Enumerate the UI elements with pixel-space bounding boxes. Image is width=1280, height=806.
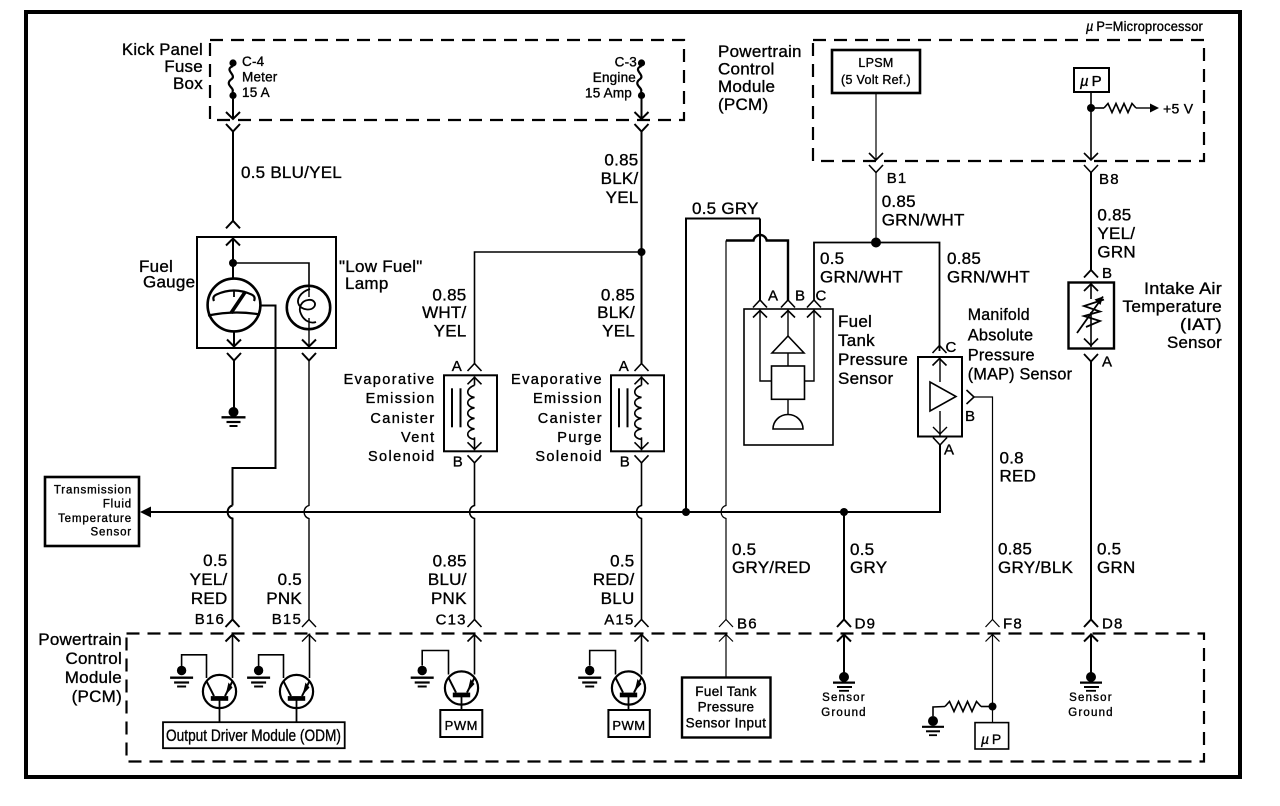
- node junction gauge/lamp: [229, 259, 237, 267]
- Fuel Gauge box: [197, 237, 336, 348]
- resistor to +5V: [1091, 104, 1159, 113]
- svg-text:PWM: PWM: [612, 718, 645, 733]
- label 0.85 GRN/WHT: [882, 192, 965, 230]
- connector B15 at PCM boundary: [302, 620, 316, 642]
- wire Q3 collector to PWM: [461, 697, 463, 710]
- ground (Q1 base): [170, 666, 193, 687]
- connector at fuse box boundary (C-4 output): [226, 112, 240, 132]
- label C-3 Engine 15 Amp: [585, 55, 637, 101]
- label 0.5 GRY (D9): [850, 540, 887, 577]
- Fuel Tank Pressure Sensor Input box: [682, 678, 771, 738]
- svg-text:0.5: 0.5: [820, 249, 844, 268]
- wire 0.5 GRY (bus to PCM D9): [843, 512, 845, 620]
- svg-text:YEL/: YEL/: [190, 570, 228, 589]
- svg-text:Box: Box: [173, 74, 203, 93]
- svg-text:15 Amp: 15 Amp: [585, 86, 632, 101]
- wire F8 stem to uP: [992, 634, 994, 723]
- Evaporative Emission Canister Purge Solenoid: [611, 375, 664, 451]
- svg-text:RED: RED: [191, 589, 228, 608]
- label Powertrain Control Module (PCM) top: [718, 42, 802, 114]
- Intake Air Temperature (IAT) Sensor box: [1069, 283, 1115, 349]
- microprocessor box uP (top right): [1074, 68, 1109, 92]
- svg-text:Vent: Vent: [401, 430, 436, 446]
- wire uP down: [1090, 92, 1092, 160]
- svg-text:C: C: [946, 339, 958, 356]
- svg-text:Gauge: Gauge: [143, 273, 195, 292]
- label 0.85 BLU/PNK C13: [428, 552, 467, 629]
- connector FTP pin B: [781, 300, 795, 318]
- MAP internals (amplifier): [930, 357, 956, 436]
- wire MAP A to bus: [844, 445, 940, 512]
- wire junction to low fuel lamp: [233, 263, 309, 286]
- wire 0.85 YEL/GRN (B8 to IAT): [1090, 173, 1092, 271]
- svg-text:Sensor: Sensor: [1069, 692, 1113, 704]
- svg-text:B6: B6: [737, 616, 758, 633]
- svg-text:B: B: [795, 288, 806, 305]
- svg-text:Emission: Emission: [533, 391, 603, 407]
- svg-text:Module: Module: [65, 668, 122, 687]
- svg-text:YEL: YEL: [602, 322, 635, 341]
- svg-text:Module: Module: [718, 77, 775, 96]
- wire to ground: [233, 361, 235, 409]
- label 0.85 GRY/BLK: [998, 540, 1074, 577]
- wire 0.85 BLU/PNK (vent to PCM C13) with hop over bus: [470, 463, 475, 620]
- svg-text:GRN/WHT: GRN/WHT: [882, 211, 965, 230]
- svg-text:B16: B16: [195, 611, 225, 628]
- svg-text:15 A: 15 A: [242, 85, 270, 100]
- svg-text:YEL: YEL: [606, 188, 639, 207]
- Manifold Absolute Pressure (MAP) Sensor box: [918, 357, 962, 437]
- label 0.5 GRY/RED: [732, 540, 811, 577]
- label Fuel Tank Pressure Sensor: [838, 312, 908, 388]
- wire lamp bottom: [308, 329, 310, 347]
- svg-text:GRN: GRN: [1097, 243, 1136, 262]
- wire 0.5 GRN (IAT to PCM D8): [1090, 362, 1092, 620]
- PWM box (purge driver): [608, 710, 649, 737]
- svg-text:Tank: Tank: [838, 331, 875, 350]
- Powertrain Control Module bottom (dashed enclosure): [127, 634, 1205, 762]
- svg-text:Meter: Meter: [242, 70, 278, 85]
- svg-text:A15: A15: [604, 612, 634, 629]
- wire A15 stem to transistor Q4: [641, 634, 643, 675]
- connector MAP pin C: [933, 346, 947, 366]
- svg-text:B15: B15: [272, 611, 302, 628]
- sensor ground (D9): [821, 672, 867, 719]
- svg-text:RED: RED: [1000, 467, 1037, 486]
- ground (Q2 base): [247, 666, 270, 687]
- label Fuel Gauge: [139, 257, 195, 292]
- svg-text:C13: C13: [436, 612, 467, 629]
- label 0.85 BLK/YEL (upper): [601, 150, 639, 207]
- svg-text:GRN/WHT: GRN/WHT: [820, 268, 903, 287]
- svg-text:Powertrain: Powertrain: [38, 630, 122, 649]
- svg-text:Control: Control: [65, 649, 122, 668]
- svg-text:0.85: 0.85: [998, 540, 1032, 559]
- label Evaporative Emission Canister Vent Solenoid: [344, 372, 436, 465]
- connector D9 at PCM boundary: [837, 620, 851, 642]
- label Manifold Absolute Pressure (MAP) Sensor: [968, 305, 1072, 384]
- connector MAP pin A (bottom): [933, 438, 947, 446]
- svg-text:B1: B1: [887, 170, 908, 187]
- svg-text:YEL/: YEL/: [1097, 224, 1135, 243]
- connector at purge solenoid top: [635, 364, 649, 372]
- svg-text:0.85: 0.85: [601, 286, 635, 305]
- svg-text:0.5 BLU/YEL: 0.5 BLU/YEL: [241, 163, 342, 182]
- wire fuse C-3 to fuse box edge: [641, 99, 643, 119]
- wire FTP pin A drop: [759, 219, 761, 301]
- wire 0.5 RED/BLU (purge to PCM A15) with hop over bus: [637, 463, 642, 620]
- svg-text:BLK/: BLK/: [601, 169, 639, 188]
- svg-text:Pressure: Pressure: [698, 700, 755, 715]
- wire D9 stem to sensor ground: [843, 634, 845, 674]
- svg-text:BLU: BLU: [601, 589, 635, 608]
- node resistor joins F8 wire: [989, 703, 997, 711]
- label 0.85 WHT/YEL: [422, 286, 466, 341]
- fuse C-4 Meter 15 A: [229, 59, 237, 99]
- svg-text:Emission: Emission: [366, 391, 436, 407]
- svg-text:C-3: C-3: [615, 55, 637, 70]
- wire 0.8 RED / 0.85 GRY/BLK (MAP B to PCM F8): [974, 397, 993, 620]
- svg-text:0.85: 0.85: [1097, 206, 1131, 225]
- svg-text:Ground: Ground: [1068, 707, 1114, 719]
- svg-text:(PCM): (PCM): [718, 95, 768, 114]
- wire LPSM to PCM edge: [875, 93, 877, 160]
- Powertrain Control Module top (dashed enclosure): [813, 40, 1204, 161]
- svg-text:F8: F8: [1003, 616, 1023, 633]
- connector B1 at PCM top box edge: [869, 153, 883, 173]
- svg-text:B: B: [1102, 265, 1113, 282]
- svg-text:Transmission: Transmission: [54, 485, 132, 497]
- svg-text:B: B: [965, 408, 976, 425]
- Evaporative Emission Canister Vent Solenoid: [444, 375, 497, 451]
- svg-text:Fuel Tank: Fuel Tank: [695, 684, 756, 699]
- svg-text:Purge: Purge: [557, 430, 603, 446]
- svg-text:Canister: Canister: [370, 411, 435, 427]
- wire junction to FTP pin C: [814, 243, 876, 301]
- svg-text:B8: B8: [1099, 171, 1120, 188]
- wire 0.5 BLU/YEL (fuse C-4 to fuel gauge): [232, 132, 234, 221]
- svg-text:0.5: 0.5: [850, 540, 874, 559]
- transistor Q1: [203, 675, 236, 708]
- label 0.5 YEL/RED B16: [190, 551, 228, 628]
- node junction purge wire to vent branch: [638, 248, 646, 256]
- svg-text:0.5: 0.5: [610, 552, 634, 571]
- connector MAP pin B (right): [967, 390, 975, 404]
- svg-text:Sensor: Sensor: [838, 369, 893, 388]
- connector at fuel gauge box bottom (lamp): [302, 340, 316, 361]
- svg-text:+5 V: +5 V: [1163, 101, 1194, 117]
- wire fuse C-4 to fuse box edge: [232, 99, 234, 119]
- wire D8 stem to sensor ground: [1090, 634, 1092, 674]
- wire 0.85 GRN/WHT (B1 to junction): [875, 173, 877, 243]
- wire 0.5 GRY (to bus / FTP A): [686, 219, 760, 513]
- connector FTP pin C: [807, 300, 821, 318]
- svg-text:µ P: µ P: [1080, 73, 1102, 90]
- transistor Q4: [612, 671, 645, 704]
- node uP/resistor junction: [1087, 104, 1095, 112]
- connector B16 at PCM boundary: [226, 620, 240, 642]
- svg-text:YEL: YEL: [434, 322, 467, 341]
- connector F8 at PCM boundary: [986, 620, 1000, 642]
- wire gauge output (needle terminal): [233, 306, 276, 506]
- node bus to D9: [840, 508, 848, 516]
- label 0.5 PNK B15: [266, 570, 302, 628]
- svg-text:(IAT): (IAT): [1180, 315, 1222, 334]
- wire Q3 base from ground: [422, 651, 448, 675]
- label "Low Fuel" Lamp: [339, 257, 423, 293]
- Transmission Fluid Temperature Sensor box: [45, 477, 139, 546]
- svg-text:Pressure: Pressure: [838, 350, 908, 369]
- connector IAT pin B: [1084, 270, 1098, 291]
- fuel gauge meter symbol: [208, 263, 261, 331]
- svg-text:D8: D8: [1102, 616, 1124, 633]
- wire junction to MAP pin C: [876, 243, 940, 352]
- svg-text:GRY: GRY: [850, 558, 887, 577]
- wire gauge bottom to ground: [233, 332, 235, 348]
- svg-text:0.85: 0.85: [604, 150, 638, 169]
- svg-text:Fluid: Fluid: [103, 499, 132, 511]
- label C-4 Meter 15 A: [242, 54, 278, 100]
- svg-text:GRY/BLK: GRY/BLK: [998, 558, 1074, 577]
- wire Q4 collector to PWM: [628, 697, 630, 710]
- connector at fuel gauge box bottom (gauge): [227, 340, 241, 361]
- connector at fuel gauge box top: [226, 221, 240, 246]
- wire Q4 base from ground: [590, 651, 616, 675]
- svg-text:0.5: 0.5: [203, 551, 227, 570]
- svg-text:0.85: 0.85: [432, 286, 466, 305]
- svg-text:Solenoid: Solenoid: [535, 449, 603, 465]
- svg-text:µ P=Microprocessor: µ P=Microprocessor: [1086, 19, 1203, 34]
- wire 0.85 BLK/YEL (fuse C-3 to purge solenoid): [641, 132, 643, 364]
- svg-text:GRN: GRN: [1097, 558, 1136, 577]
- node 0.5 GRY joins bus: [682, 508, 690, 516]
- svg-text:C-4: C-4: [242, 54, 265, 69]
- svg-text:Engine: Engine: [593, 70, 636, 85]
- svg-text:A: A: [768, 288, 779, 305]
- Fuel Tank Pressure Sensor box: [744, 309, 833, 445]
- ground (resistor): [922, 716, 944, 735]
- svg-text:Sensor: Sensor: [90, 527, 132, 539]
- svg-text:Solenoid: Solenoid: [368, 449, 436, 465]
- svg-text:PWM: PWM: [445, 718, 478, 733]
- svg-text:PNK: PNK: [266, 589, 302, 608]
- label 0.85 BLK/YEL (lower): [597, 286, 635, 341]
- svg-text:Evaporative: Evaporative: [511, 372, 603, 388]
- Kick Panel Fuse Box (dashed enclosure): [210, 40, 684, 120]
- svg-text:Sensor Input: Sensor Input: [686, 716, 767, 731]
- bus wire to transmission sensor: [148, 511, 844, 513]
- label Kick Panel Fuse Box: [122, 40, 203, 93]
- svg-text:BLU/: BLU/: [428, 570, 467, 589]
- label 0.85 GRN/WHT (MAP): [947, 249, 1030, 287]
- wire Q1 base from ground: [182, 655, 207, 678]
- svg-text:Evaporative: Evaporative: [344, 372, 436, 388]
- wire B16 stem to transistor Q1: [232, 634, 234, 679]
- svg-text:(PCM): (PCM): [72, 687, 122, 706]
- svg-text:0.5: 0.5: [1097, 540, 1121, 559]
- svg-text:Absolute: Absolute: [968, 326, 1034, 345]
- svg-text:Manifold: Manifold: [968, 305, 1030, 324]
- microprocessor box uP (bottom): [975, 723, 1009, 749]
- label 0.5 GRN/WHT: [820, 249, 903, 287]
- svg-text:LPSM: LPSM: [858, 56, 893, 70]
- svg-text:Sensor: Sensor: [822, 692, 866, 704]
- label Evaporative Emission Canister Purge Solenoid: [511, 372, 603, 465]
- svg-text:B: B: [453, 454, 464, 471]
- svg-text:Pressure: Pressure: [968, 346, 1035, 365]
- FTP internals: [760, 309, 814, 429]
- ground (Q4 base): [578, 666, 601, 687]
- connector D8 at PCM boundary: [1084, 620, 1098, 642]
- connector at vent solenoid top: [468, 364, 482, 372]
- svg-text:0.8: 0.8: [1000, 448, 1024, 467]
- label Intake Air Temperature (IAT) Sensor: [1123, 279, 1223, 352]
- IAT internals (thermistor): [1077, 283, 1104, 347]
- fuse C-3 Engine 15 Amp: [637, 59, 645, 99]
- svg-text:A: A: [452, 358, 463, 375]
- svg-text:0.85: 0.85: [947, 249, 981, 268]
- svg-text:B: B: [620, 454, 631, 471]
- svg-text:Output Driver Module (ODM): Output Driver Module (ODM): [166, 726, 341, 745]
- svg-text:0.5: 0.5: [278, 570, 302, 589]
- wire Q2 collector to ODM: [296, 700, 298, 722]
- "Low Fuel" Lamp symbol: [287, 286, 330, 329]
- wire branch to vent solenoid 0.85 WHT/YEL: [475, 252, 642, 364]
- svg-text:GRN/WHT: GRN/WHT: [947, 268, 1030, 287]
- connector C13 at PCM boundary: [468, 620, 482, 642]
- svg-text:µ P: µ P: [981, 731, 1001, 747]
- connector A15 at PCM boundary: [635, 620, 649, 642]
- transistor Q3: [445, 671, 478, 704]
- label 0.85 YEL/GRN: [1097, 206, 1136, 262]
- svg-text:Canister: Canister: [538, 411, 603, 427]
- LPSM (5 Volt Ref.) box: [832, 50, 920, 93]
- label 0.5 GRN: [1097, 540, 1136, 577]
- wire Q2 base from ground: [259, 655, 284, 678]
- connector B6 at PCM boundary: [719, 620, 733, 642]
- connector B8 at PCM top box edge: [1084, 153, 1098, 173]
- svg-text:Ground: Ground: [821, 707, 867, 719]
- ground (Q3 base): [411, 666, 434, 687]
- svg-text:GRY/RED: GRY/RED: [732, 558, 811, 577]
- label Powertrain Control Module (PCM) bottom: [38, 630, 122, 706]
- svg-text:A: A: [619, 358, 630, 375]
- svg-text:PNK: PNK: [431, 589, 467, 608]
- svg-text:A: A: [944, 442, 955, 459]
- pull-up resistor to uP (F8): [933, 702, 993, 717]
- wire C13 stem to transistor Q3: [474, 634, 476, 675]
- svg-text:0.5 GRY: 0.5 GRY: [692, 199, 759, 218]
- arrow into transmission sensor: [140, 507, 151, 518]
- wire 0.5 PNK (lamp to PCM B15) with hop over bus: [304, 361, 309, 620]
- svg-text:Control: Control: [718, 60, 775, 79]
- connector at purge solenoid bottom: [635, 455, 649, 463]
- svg-text:(5 Volt Ref.): (5 Volt Ref.): [841, 73, 911, 87]
- transistor Q2: [280, 675, 313, 708]
- svg-text:WHT/: WHT/: [422, 303, 466, 322]
- svg-text:C: C: [816, 288, 828, 305]
- node B1 wire splits: [871, 238, 881, 248]
- label 0.5 RED/BLU A15: [593, 552, 635, 629]
- PWM box (vent driver): [440, 710, 482, 737]
- svg-text:Powertrain: Powertrain: [718, 42, 802, 61]
- svg-text:0.85: 0.85: [433, 552, 467, 571]
- svg-text:Intake Air: Intake Air: [1144, 279, 1222, 298]
- connector IAT pin A: [1084, 354, 1098, 362]
- wire Q1 collector to ODM: [219, 700, 221, 722]
- svg-text:Lamp: Lamp: [345, 274, 389, 293]
- svg-text:Temperature: Temperature: [1123, 297, 1223, 316]
- svg-text:BLK/: BLK/: [597, 303, 635, 322]
- label 0.8 RED: [1000, 448, 1037, 485]
- wire B6 stem to Fuel Tank Pressure Sensor Input: [725, 634, 727, 678]
- connector at vent solenoid bottom: [468, 455, 482, 463]
- connector at fuse box boundary (C-3 output): [635, 112, 649, 132]
- wire FTP pin B horizontal with hop over A wire: [726, 235, 788, 300]
- svg-text:Fuel: Fuel: [838, 312, 872, 331]
- svg-text:0.5: 0.5: [732, 540, 756, 559]
- sensor ground (D8): [1068, 672, 1114, 719]
- ground (fuel gauge): [222, 407, 246, 426]
- svg-text:A: A: [1102, 354, 1113, 371]
- wire into fuel gauge: [232, 237, 234, 263]
- wire B15 stem to transistor Q2: [309, 634, 311, 679]
- svg-text:D9: D9: [855, 616, 877, 633]
- Output Driver Module (ODM) box: [163, 722, 345, 748]
- svg-text:RED/: RED/: [593, 570, 635, 589]
- svg-text:Sensor: Sensor: [1167, 333, 1222, 352]
- svg-text:Temperature: Temperature: [58, 513, 132, 525]
- wire 0.5 YEL/RED (gauge to PCM B16) with hop over bus: [228, 506, 233, 620]
- connector FTP pin A: [753, 300, 767, 318]
- svg-text:(MAP) Sensor: (MAP) Sensor: [968, 365, 1072, 384]
- wire 0.5 GRY/RED (to PCM B6) with hop over bus: [721, 241, 726, 620]
- svg-text:0.85: 0.85: [882, 192, 916, 211]
